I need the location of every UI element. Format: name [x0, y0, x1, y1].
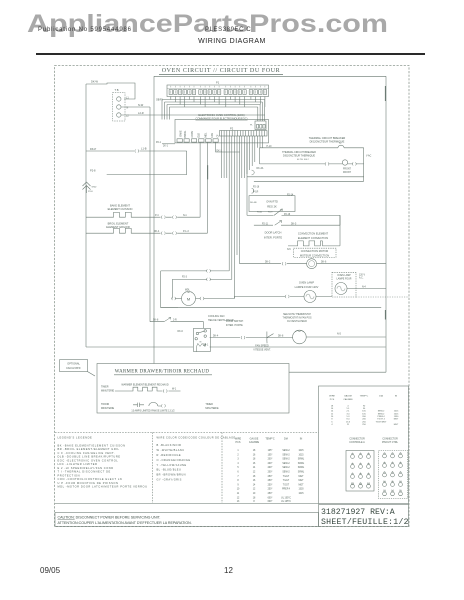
svg-text:CONTROLE A: CONTROLE A — [349, 441, 365, 444]
label FRONT — [343, 168, 352, 173]
svg-text:SRML: SRML — [298, 463, 305, 465]
svg-text:INTER. PORTE: INTER. PORTE — [226, 324, 243, 327]
svg-text:8: 8 — [237, 480, 239, 482]
resistor bake element — [86, 212, 200, 217]
svg-text:GAUGE: GAUGE — [344, 395, 352, 398]
wire loop top — [154, 75, 386, 77]
svg-text:ELEMENT CUISSON: ELEMENT CUISSON — [108, 207, 133, 211]
svg-text:14: 14 — [253, 467, 256, 469]
model number — [205, 27, 251, 33]
svg-text:1015: 1015 — [298, 454, 304, 456]
svg-text:P2-8: P2-8 — [88, 191, 93, 193]
svg-text:1330: 1330 — [298, 489, 304, 491]
oven lamp 2 — [335, 283, 347, 295]
svg-text:6: 6 — [368, 463, 370, 465]
svg-text:OVEN LAMP: OVEN LAMP — [337, 274, 351, 277]
svg-text:M: M — [187, 297, 190, 302]
wire EOC relay drop DLB — [199, 142, 201, 217]
wire P2 short drops — [221, 136, 262, 178]
footer date — [40, 566, 60, 575]
optional tag — [60, 360, 95, 376]
wire motor left stub — [172, 298, 181, 300]
svg-text:P2-11: P2-11 — [262, 223, 269, 225]
svg-text:MGT: MGT — [298, 480, 304, 482]
svg-text:13: 13 — [237, 501, 240, 503]
wire P2 bundle drops — [229, 136, 239, 299]
motor cooling fan — [293, 330, 307, 344]
info box part number — [319, 505, 409, 528]
connector warmer right — [163, 389, 167, 392]
connector left of conv motor — [282, 262, 286, 265]
wire latch row 1 — [247, 215, 340, 246]
connector on lamp wire — [285, 295, 289, 298]
svg-text:4: 4 — [384, 462, 386, 464]
svg-text:250°: 250° — [268, 476, 273, 478]
svg-text:DK-5: DK-5 — [291, 223, 297, 225]
svg-text:OPTIONAL: OPTIONAL — [67, 362, 80, 365]
svg-text:DK-8: DK-8 — [278, 336, 284, 338]
broil element labels — [106, 221, 130, 229]
svg-text:2K-1: 2K-1 — [163, 146, 169, 148]
svg-text:2: 2 — [360, 453, 362, 455]
svg-text:3.4: 3.4 — [347, 413, 351, 415]
wire L1 bus left — [85, 84, 87, 347]
svg-text:SEW-2: SEW-2 — [282, 454, 290, 456]
svg-text:105°: 105° — [268, 454, 273, 456]
title: OVEN CIRCUIT — [162, 68, 281, 74]
svg-text:L2-R: L2-R — [138, 111, 144, 115]
svg-text:N-5: N-5 — [287, 249, 291, 251]
wire EOC relay drop FAN — [216, 142, 240, 152]
fan speed switch box — [194, 328, 211, 351]
svg-text:13: 13 — [383, 490, 386, 492]
resistor convection element — [288, 241, 340, 246]
svg-text:P-1R: P-1R — [253, 191, 259, 193]
svg-text:WARMER ELEMENT/ELEMENT RECHAUD: WARMER ELEMENT/ELEMENT RECHAUD — [121, 383, 168, 386]
svg-text:T B: T B — [115, 88, 119, 92]
svg-text:DK-2: DK-2 — [265, 262, 271, 264]
svg-text:P2: P2 — [230, 126, 234, 130]
svg-text:200: 200 — [362, 419, 366, 421]
svg-text:250°: 250° — [268, 493, 273, 495]
junction heavy segment top — [384, 86, 386, 101]
svg-text:DK-4: DK-4 — [213, 335, 219, 337]
svg-text:10: 10 — [351, 483, 354, 485]
svg-text:5: 5 — [392, 462, 394, 464]
svg-text:WARMER DRAWER/TIROIR RECHAUD: WARMER DRAWER/TIROIR RECHAUD — [115, 370, 210, 375]
svg-text:250°: 250° — [268, 480, 273, 482]
svg-text:N-W: N-W — [138, 103, 144, 107]
connector on feed 1 — [207, 269, 211, 272]
svg-text:UL 105°C: UL 105°C — [281, 497, 291, 499]
wire RTD left vertical — [246, 143, 248, 216]
svg-text:4: 4 — [237, 463, 239, 465]
svg-text:P1: P1 — [216, 80, 220, 84]
resistor warmer element — [115, 387, 181, 391]
svg-text:P2-1: P2-1 — [156, 142, 162, 144]
svg-text:DK-6: DK-6 — [178, 331, 184, 333]
svg-text:OVEN CIRCUIT // CIRCUIT DU FOU: OVEN CIRCUIT // CIRCUIT DU FOUR — [162, 68, 281, 74]
svg-text:12: 12 — [237, 497, 240, 499]
svg-text:200°: 200° — [268, 459, 273, 461]
page title — [0, 38, 464, 45]
svg-text:MOTEUR CONVECTION: MOTEUR CONVECTION — [300, 253, 329, 257]
svg-text:7: 7 — [384, 471, 386, 473]
svg-text:10: 10 — [383, 481, 386, 483]
svg-text:9: 9 — [368, 473, 370, 475]
svg-text:P-4: P-4 — [155, 215, 159, 217]
svg-text:PREF.4: PREF.4 — [282, 489, 291, 491]
connector pin grid B — [379, 451, 408, 499]
svg-text:TGGT: TGGT — [283, 480, 290, 482]
svg-text:BR -BROWN/BRUN: BR -BROWN/BRUN — [157, 473, 187, 477]
svg-text:4: 4 — [352, 463, 354, 465]
svg-text:A.C.: A.C. — [359, 277, 364, 280]
svg-text:R -RED/ROUGE: R -RED/ROUGE — [157, 453, 182, 457]
svg-text:COOLING FAN: COOLING FAN — [208, 315, 225, 318]
legend left column — [58, 436, 148, 489]
connector on broil wire — [161, 232, 165, 235]
thermal circuit breaker 1 labels — [309, 136, 346, 144]
junction heavy segment mid — [384, 310, 386, 320]
svg-text:BK -BAKE ELEMENT/ELEMENT CUIS: BK -BAKE ELEMENT/ELEMENT CUISSON — [58, 443, 126, 447]
connector L1-B — [135, 149, 139, 152]
svg-text:4: 4 — [331, 424, 333, 426]
svg-text:SEW-2: SEW-2 — [282, 450, 290, 452]
svg-text:8: 8 — [392, 471, 394, 473]
svg-text:TGGT: TGGT — [283, 484, 290, 486]
svg-text:IN: IN — [300, 438, 303, 441]
convection motor labels — [294, 248, 337, 257]
wire P1 harness row 2 — [165, 102, 263, 121]
120V AC note — [359, 274, 366, 288]
connector on bake wire — [161, 216, 165, 219]
svg-text:9: 9 — [400, 471, 402, 473]
wire P1 harness row 3 — [167, 105, 260, 122]
oven lamp 1 — [304, 291, 316, 303]
svg-text:10: 10 — [237, 489, 240, 491]
svg-text:BROIL: BROIL — [185, 130, 187, 138]
svg-text:DLB -DOUBLE LINE BREAK/RUPTURE: DLB -DOUBLE LINE BREAK/RUPTURE — [58, 455, 121, 459]
wire motor right — [196, 298, 235, 300]
thermostat warmer bump — [149, 402, 161, 406]
svg-text:U P -FOUR MOUNTING DE POISSON: U P -FOUR MOUNTING DE POISSON — [58, 481, 119, 485]
svg-text:2-R: 2-R — [173, 320, 177, 322]
svg-text:TEMP°C: TEMP°C — [265, 438, 275, 441]
svg-text:P2-14: P2-14 — [287, 194, 294, 196]
wire loop vertical x154 — [153, 76, 155, 363]
svg-text:CALIBRE: CALIBRE — [343, 398, 353, 401]
svg-text:MDL -MOTOR DOOR LATCH/MOTEUR P: MDL -MOTOR DOOR LATCH/MOTEUR PORTE VERRO… — [58, 485, 148, 489]
connector pin grid A — [346, 451, 374, 492]
svg-text:200°: 200° — [268, 467, 273, 469]
svg-text:18: 18 — [253, 497, 256, 499]
parts table box bottom right — [319, 386, 409, 504]
svg-text:THERMOSTAT IN FAN POS: THERMOSTAT IN FAN POS — [283, 317, 312, 320]
svg-text:1015: 1015 — [394, 413, 399, 415]
thermostat note labels — [283, 313, 312, 323]
svg-text:LDC -LIGHTER LIMITER: LDC -LIGHTER LIMITER — [58, 462, 98, 466]
svg-text:Y -YELLOW/JAUNE: Y -YELLOW/JAUNE — [157, 463, 187, 467]
svg-text:6: 6 — [400, 462, 402, 464]
svg-text:14: 14 — [391, 490, 394, 492]
svg-text:OVN RTD: OVN RTD — [266, 199, 278, 203]
svg-text:TC: TC — [339, 143, 342, 145]
svg-text:BROIL ELEMENT: BROIL ELEMENT — [108, 221, 129, 225]
svg-text:TIMER: TIMER — [205, 403, 213, 406]
cooling fan row labels — [208, 315, 234, 322]
svg-text:N-1: N-1 — [183, 215, 187, 217]
bake element labels — [108, 203, 133, 211]
svg-text:5: 5 — [237, 467, 239, 469]
svg-text:5: 5 — [360, 463, 362, 465]
svg-text:LAMPE FOUR 120V: LAMPE FOUR 120V — [295, 285, 319, 289]
svg-text:DIA: DIA — [284, 438, 288, 441]
svg-text:40 T.B. 104 C: 40 T.B. 104 C — [297, 159, 310, 161]
wire thermal loop verticals — [260, 148, 364, 182]
resistor broil element — [86, 228, 207, 233]
svg-text:DK-6: DK-6 — [321, 262, 327, 264]
svg-text:1: 1 — [237, 450, 239, 452]
svg-text:120 V: 120 V — [359, 274, 365, 276]
svg-text:P2-16: P2-16 — [253, 186, 260, 188]
legend right divider — [221, 432, 223, 503]
wire N from TB — [121, 106, 150, 108]
door latch switch labels — [264, 231, 282, 240]
warmer row 2 labels — [101, 403, 219, 410]
warmer drawer box — [97, 364, 289, 414]
svg-text:CAUTION: DISCONNECT POWER BEFO: CAUTION: DISCONNECT POWER BEFORE SERVICI… — [58, 516, 161, 520]
thermostat warmer contacts — [133, 403, 144, 407]
wire N to fan switch — [150, 322, 203, 329]
svg-text:SHEET/FEUILLE:1/2: SHEET/FEUILLE:1/2 — [321, 517, 409, 527]
fan speed labels — [253, 345, 271, 352]
svg-text:SEW-2: SEW-2 — [282, 463, 290, 465]
wire door lock feed 1 — [161, 270, 230, 272]
svg-text:UL 105°C: UL 105°C — [281, 501, 291, 503]
svg-text:DK-W: DK-W — [91, 80, 98, 84]
heavy segment MDL drop — [207, 165, 209, 179]
svg-text:SEW-2: SEW-2 — [378, 413, 385, 415]
wire right bus x386 — [385, 76, 387, 372]
svg-text:16: 16 — [253, 480, 256, 482]
svg-text:SEW-2: SEW-2 — [282, 472, 290, 474]
svg-text:REG 2K: REG 2K — [267, 204, 277, 208]
wire RTD feed 2 — [254, 180, 364, 182]
svg-text:DIA: DIA — [379, 395, 383, 398]
header rule — [36, 53, 425, 55]
svg-text:21: 21 — [347, 424, 350, 426]
connector on fan wire — [241, 336, 245, 339]
svg-text:200°: 200° — [268, 472, 273, 474]
svg-text:7: 7 — [352, 473, 354, 475]
svg-text:DK-4: DK-4 — [154, 231, 160, 233]
motor convection fan — [307, 259, 317, 269]
wire long neutral row — [161, 307, 382, 309]
terminal block TB — [113, 88, 126, 121]
svg-text:DK-P: DK-P — [90, 147, 96, 151]
svg-text:SRML: SRML — [298, 472, 305, 474]
svg-text:WIRE: WIRE — [235, 438, 242, 441]
svg-text:10: 10 — [253, 493, 256, 495]
oven lamp 1 labels — [295, 280, 319, 289]
svg-text:12: 12 — [253, 472, 256, 474]
door switch — [267, 332, 274, 344]
svg-text:250: 250 — [362, 424, 366, 426]
oven RTD sensor box — [249, 194, 295, 213]
svg-text:LEGEND'S LEGENDE: LEGEND'S LEGENDE — [58, 436, 93, 440]
wire latch row 2 — [254, 215, 340, 225]
svg-text:SEW-2: SEW-2 — [282, 459, 290, 461]
svg-text:8: 8 — [331, 419, 333, 421]
svg-text:TIROIR: TIROIR — [101, 403, 109, 406]
door switch labels — [226, 320, 244, 327]
svg-text:TIMER: TIMER — [101, 385, 109, 388]
svg-text:THERMAL CIRCUIT BREAKER: THERMAL CIRCUIT BREAKER — [309, 136, 346, 140]
svg-text:C F -COOLING FAN/HELICE VENT.: C F -COOLING FAN/HELICE VENT. — [58, 451, 116, 455]
wire L2 from TB — [121, 114, 265, 116]
svg-text:DU VENTILATEUR: DU VENTILATEUR — [287, 320, 307, 323]
svg-text:MGT: MGT — [298, 484, 304, 486]
svg-text:TGGT: TGGT — [283, 476, 290, 478]
svg-text:PINOUT CTRL: PINOUT CTRL — [382, 441, 399, 444]
svg-text:9: 9 — [237, 484, 239, 486]
footer page number — [224, 566, 233, 575]
wire thermal breaker top — [260, 147, 364, 149]
wire P1 harness row 1 — [162, 100, 265, 122]
svg-text:14: 14 — [253, 484, 256, 486]
svg-text:SEE NOTE THERMOSTAT: SEE NOTE THERMOSTAT — [283, 313, 311, 316]
wire bottom neutral — [86, 346, 386, 348]
legend middle divider — [152, 432, 154, 503]
wire EOC left exit — [162, 143, 175, 145]
connector on broil wire — [173, 232, 177, 235]
svg-text:2: 2 — [392, 452, 394, 454]
svg-text:BAKE: BAKE — [179, 130, 182, 137]
svg-text:DK-8: DK-8 — [153, 320, 159, 322]
svg-text:SEW-2: SEW-2 — [282, 467, 290, 469]
svg-text:ATTENTION:COUPER L'ALIMENTATIO: ATTENTION:COUPER L'ALIMENTATION AVANT D'… — [58, 521, 192, 525]
svg-text:MGT: MGT — [298, 476, 304, 478]
svg-text:DOOR LATCH: DOOR LATCH — [265, 231, 282, 235]
svg-text:V AC: V AC — [366, 155, 372, 158]
svg-text:TGGT/MGT: TGGT/MGT — [376, 421, 388, 423]
wire fan switch to door switch — [210, 337, 267, 339]
svg-text:16: 16 — [331, 408, 334, 410]
svg-text:WIRE COLOR CODE/CODE COULEUR D: WIRE COLOR CODE/CODE COULEUR DE CABLAGE — [157, 437, 236, 440]
connector on bake wire — [173, 216, 177, 219]
electronic oven control EOC — [175, 113, 269, 143]
svg-text:CONVECTION ELEMENT: CONVECTION ELEMENT — [298, 231, 329, 235]
svg-text:PROTECTION: PROTECTION — [58, 473, 81, 477]
svg-text:15: 15 — [399, 490, 402, 492]
thermal circuit breaker 2 labels — [282, 151, 316, 161]
svg-text:BR -BROIL ELEMENT/ELEMENT GRI: BR -BROIL ELEMENT/ELEMENT GRIL — [58, 447, 120, 451]
svg-text:2: 2 — [237, 454, 239, 456]
warmer timer labels left — [101, 385, 115, 392]
wire P1 pin drops — [171, 97, 265, 108]
connector on feed 2 — [207, 278, 211, 281]
svg-text:1015: 1015 — [298, 450, 304, 452]
svg-text:FRONT: FRONT — [343, 172, 352, 174]
svg-text:CONV: CONV — [192, 130, 194, 137]
svg-text:90: 90 — [363, 408, 366, 410]
svg-text:OB/P1: OB/P1 — [156, 100, 163, 102]
svg-text:IN: IN — [395, 396, 398, 398]
svg-text:CALIBRE: CALIBRE — [249, 441, 260, 444]
svg-text:P-1-3: P-1-3 — [183, 231, 189, 233]
svg-text:OVEN LAMP: OVEN LAMP — [299, 280, 314, 284]
svg-text:W -WHITE/BLANC: W -WHITE/BLANC — [157, 448, 185, 452]
svg-text:11: 11 — [391, 481, 394, 483]
watermark — [27, 10, 388, 39]
svg-text:CONVECTION MOTOR: CONVECTION MOTOR — [301, 249, 329, 253]
wire color code column — [157, 437, 236, 482]
connector left of lamp — [325, 162, 329, 165]
legend separator dashed — [55, 431, 319, 433]
svg-text:EOC -ELECTRONIC OVEN CONTROL: EOC -ELECTRONIC OVEN CONTROL — [58, 458, 119, 462]
wire gauge table rows — [237, 450, 305, 503]
svg-text:11: 11 — [237, 493, 240, 495]
svg-text:GAUGE: GAUGE — [250, 438, 259, 441]
connector P1 — [167, 80, 269, 96]
connector motor left — [172, 297, 176, 300]
svg-text:8: 8 — [253, 501, 255, 503]
switch door latch 1 — [274, 209, 282, 215]
wire door lock verticals — [161, 271, 178, 308]
svg-text:13 AMPS LIMITED RANGE LIMITE 1: 13 AMPS LIMITED RANGE LIMITE 13.1/2 — [131, 410, 175, 413]
svg-text:8.4: 8.4 — [347, 419, 351, 421]
svg-text:18: 18 — [253, 450, 256, 452]
svg-text:18: 18 — [253, 459, 256, 461]
svg-text:GY -GRAY/GRIS: GY -GRAY/GRIS — [157, 478, 182, 482]
svg-text:DK-4B: DK-4B — [250, 202, 257, 204]
wire convection motor row — [240, 246, 386, 264]
svg-text:INTER. PORTE: INTER. PORTE — [264, 235, 282, 239]
svg-text:MDL: MDL — [205, 132, 207, 138]
svg-text:SRML: SRML — [298, 467, 305, 469]
wire P1 harness row 4 — [170, 107, 258, 121]
svg-text:18: 18 — [253, 476, 256, 478]
svg-text:TGGT 4: TGGT 4 — [377, 419, 385, 421]
svg-text:250°: 250° — [268, 484, 273, 486]
svg-text:318271927 REV:A: 318271927 REV:A — [321, 508, 395, 517]
svg-text:P-10: P-10 — [267, 146, 273, 148]
wire fan motor to bus — [306, 336, 386, 338]
svg-text:PL: PL — [250, 125, 253, 127]
svg-text:3: 3 — [400, 452, 402, 454]
breaker bump symbol — [338, 145, 344, 148]
svg-text:SRML: SRML — [298, 459, 305, 461]
svg-text:VITESSE VENT.: VITESSE VENT. — [253, 349, 271, 352]
svg-text:FAN: FAN — [211, 133, 214, 138]
svg-text:5.1: 5.1 — [347, 408, 351, 410]
svg-text:FRONT: FRONT — [343, 168, 352, 170]
svg-text:P2-8: P2-8 — [90, 169, 96, 173]
switch on fan feed — [164, 317, 171, 321]
svg-text:N-S: N-S — [337, 334, 341, 336]
svg-text:3: 3 — [237, 459, 239, 461]
svg-text:6: 6 — [237, 472, 239, 474]
svg-text:200°: 200° — [268, 463, 273, 465]
svg-text:E 2 -HI SPEED/RELAY/FAN COND: E 2 -HI SPEED/RELAY/FAN COND — [58, 466, 114, 470]
wire EOC relay drop MDL — [206, 142, 208, 233]
svg-text:12: 12 — [399, 481, 402, 483]
svg-text:12: 12 — [253, 489, 256, 491]
wire door lock feed 2 — [172, 278, 232, 280]
svg-text:MGT: MGT — [394, 419, 399, 421]
svg-text:105°: 105° — [268, 450, 273, 452]
